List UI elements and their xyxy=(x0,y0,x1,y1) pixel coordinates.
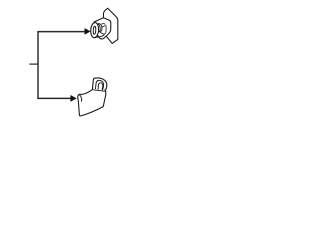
lock face outer ellipse xyxy=(90,22,99,38)
wire tick xyxy=(29,63,38,65)
lock escutcheon plate xyxy=(103,8,117,43)
collar outer ring xyxy=(96,23,103,32)
collar upper facet xyxy=(101,23,105,26)
arrow to bracket xyxy=(71,95,77,101)
bracket curl inner line 2 xyxy=(98,83,103,90)
arrow to lock cylinder xyxy=(85,28,91,34)
bracket tab fold line xyxy=(79,95,81,102)
wire leader bracket xyxy=(38,32,85,99)
bracket body xyxy=(78,78,107,116)
bracket top edge under curl xyxy=(92,90,105,92)
bracket curl inner line 1 xyxy=(95,80,103,90)
collar right edge xyxy=(105,25,107,33)
lock flange housing xyxy=(94,18,111,39)
collar inner ring xyxy=(97,24,101,32)
lock barrel bottom silhouette xyxy=(95,34,104,37)
collar lower facet xyxy=(101,26,105,27)
lock face inner ellipse xyxy=(93,26,96,34)
collar bottom edge xyxy=(100,32,106,34)
